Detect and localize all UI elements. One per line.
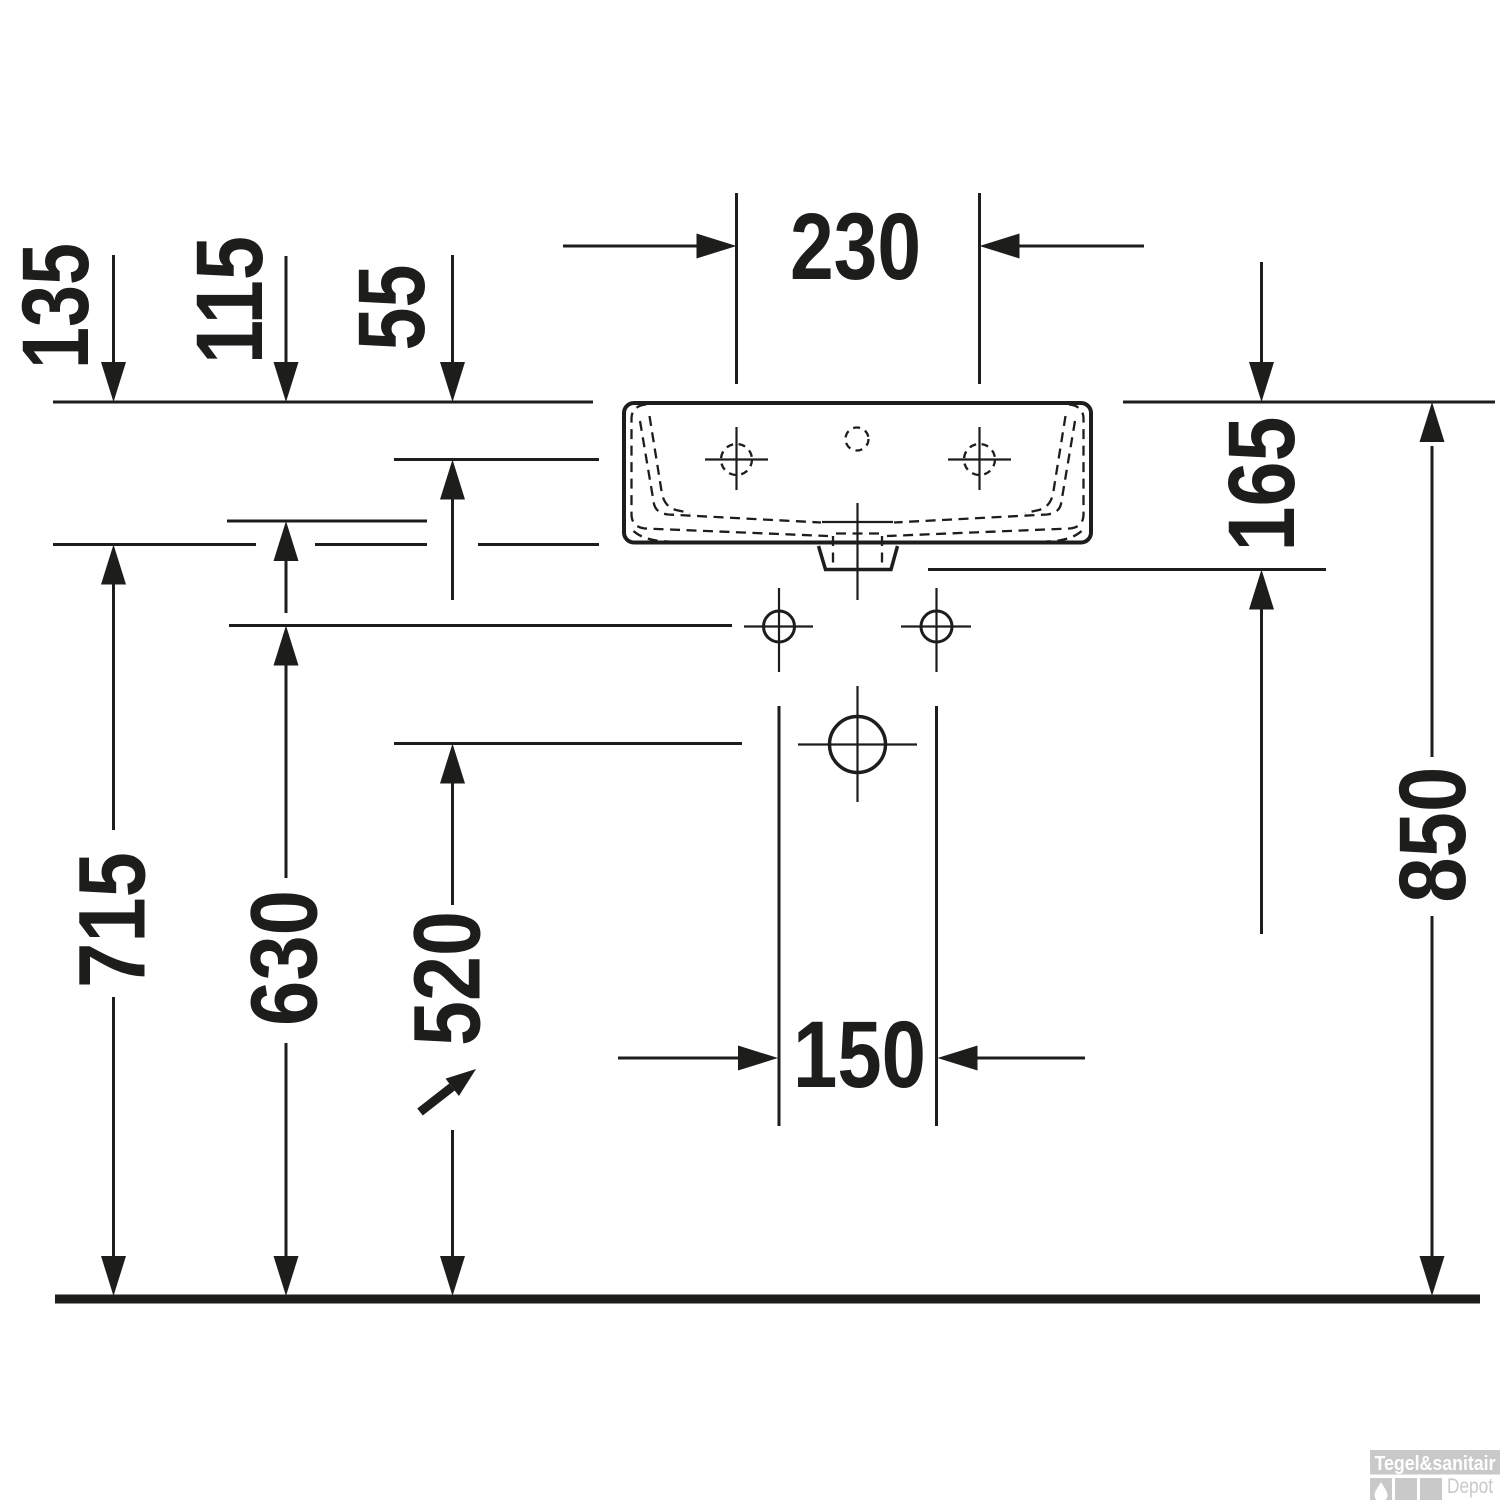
svg-text:165: 165 — [1209, 417, 1315, 552]
svg-text:230: 230 — [790, 194, 921, 300]
svg-text:630: 630 — [232, 890, 338, 1026]
svg-text:850: 850 — [1380, 767, 1486, 903]
svg-text:150: 150 — [793, 1002, 926, 1108]
svg-text:715: 715 — [60, 852, 166, 988]
svg-text:135: 135 — [3, 243, 109, 369]
svg-text:115: 115 — [177, 236, 283, 364]
svg-text:Tegel&sanitair: Tegel&sanitair — [1375, 1453, 1496, 1475]
svg-text:520: 520 — [395, 911, 501, 1046]
svg-text:Depot: Depot — [1447, 1475, 1493, 1498]
svg-text:55: 55 — [339, 265, 445, 351]
